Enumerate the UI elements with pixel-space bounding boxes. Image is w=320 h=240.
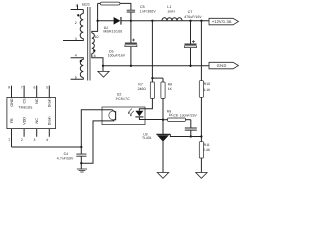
node C4 bottom / emitter bbox=[80, 162, 82, 164]
svg-text:U2: U2 bbox=[117, 92, 122, 96]
svg-text:MBR10100: MBR10100 bbox=[103, 29, 122, 33]
IC U1 box bbox=[7, 98, 56, 129]
capacitor C8 bbox=[190, 120, 192, 128]
capacitor C4 bbox=[80, 147, 82, 154]
wire opto emitter to ground bbox=[81, 121, 102, 163]
node R7R8 top bbox=[151, 77, 153, 79]
svg-text:5: 5 bbox=[46, 85, 48, 89]
node: D2 anode junction bbox=[96, 20, 98, 22]
primary polarity dot bbox=[77, 14, 79, 16]
opto LED bbox=[135, 111, 143, 117]
optocoupler U2 box bbox=[102, 107, 145, 125]
svg-text:VDD: VDD bbox=[23, 117, 27, 125]
svg-text:NC: NC bbox=[35, 118, 39, 124]
svg-text:4: 4 bbox=[75, 54, 77, 58]
wire C5 to output wire bbox=[130, 12, 132, 21]
svg-text:C8: C8 bbox=[173, 114, 177, 118]
svg-text:1: 1 bbox=[75, 4, 77, 8]
secondary polarity dot bbox=[93, 50, 95, 52]
capacitor C6 electrolytic bbox=[130, 21, 132, 43]
wire R8 to TL431 cathode node bbox=[162, 98, 164, 119]
transformer T1 aux winding lead bottom bbox=[71, 78, 84, 80]
transformer T1 secondary winding pins 10-8 top lead bbox=[92, 3, 98, 33]
wire snubber right bbox=[120, 3, 131, 10]
svg-text:C5: C5 bbox=[140, 5, 145, 9]
svg-text:4.7nF/50V: 4.7nF/50V bbox=[57, 157, 74, 161]
node: R7R8 feed junction bbox=[151, 20, 153, 22]
transformer T1 secondary winding coil bbox=[92, 33, 95, 54]
svg-text:100uF/16V: 100uF/16V bbox=[108, 53, 126, 57]
transformer T1 secondary bottom lead to ground rail bbox=[92, 54, 103, 66]
svg-text:Drain: Drain bbox=[48, 116, 52, 125]
svg-text:TL431: TL431 bbox=[142, 136, 152, 140]
wire R7R8 feed from output bbox=[151, 21, 153, 78]
output flag +12V/1.3A bbox=[209, 18, 238, 25]
resistor R10 bbox=[199, 81, 203, 98]
node R9/TL431/opto bbox=[162, 119, 164, 121]
wire R7 to opto LED anode bbox=[139, 98, 152, 110]
svg-text:GND: GND bbox=[10, 98, 14, 107]
svg-text:1mH: 1mH bbox=[167, 10, 175, 14]
IC top pin stubs 8,7,6,5 bbox=[12, 86, 50, 98]
transformer T1 aux winding coil bbox=[80, 60, 83, 78]
svg-text:4: 4 bbox=[46, 138, 48, 142]
IC bottom pin stubs 1,2,3,4 bbox=[12, 129, 50, 147]
node: C7 junction bbox=[189, 20, 191, 22]
svg-text:8: 8 bbox=[8, 85, 10, 89]
svg-text:L1: L1 bbox=[167, 5, 171, 9]
svg-text:C7: C7 bbox=[188, 10, 193, 14]
wire snubber left bbox=[98, 2, 101, 4]
ground symbol R11 (triangle) bbox=[196, 173, 207, 179]
svg-text:FB: FB bbox=[10, 118, 14, 123]
ground rail (secondary) bbox=[103, 65, 209, 67]
wire main output (secondary rectifier rail) bbox=[98, 20, 209, 22]
ground symbol TL431 (triangle) bbox=[157, 173, 168, 179]
resistor R11 bbox=[199, 142, 203, 158]
node: rail C7 bbox=[189, 65, 191, 67]
resistor R8 bbox=[162, 78, 164, 82]
node R10/R11/ref bbox=[200, 135, 202, 137]
svg-text:100nF/25V: 100nF/25V bbox=[180, 114, 198, 118]
transformer T1 primary winding pins 1-3 lead top bbox=[71, 5, 84, 14]
GND flag bbox=[209, 62, 238, 69]
svg-text:Drain: Drain bbox=[48, 98, 52, 107]
svg-text:GND: GND bbox=[217, 63, 227, 68]
wire R10 feed from output bbox=[200, 21, 202, 81]
svg-text:TM6105: TM6105 bbox=[18, 105, 32, 109]
svg-text:2: 2 bbox=[75, 21, 77, 25]
wire R7R8 top bar bbox=[152, 77, 163, 79]
snubber resistor (series with C5) bbox=[100, 2, 120, 5]
node: rail at pin8 bbox=[102, 65, 104, 67]
svg-text:3: 3 bbox=[34, 138, 36, 142]
svg-text:9.1K: 9.1K bbox=[203, 88, 211, 92]
svg-text:R11: R11 bbox=[204, 143, 210, 147]
svg-text:CS: CS bbox=[23, 98, 27, 104]
svg-text:3: 3 bbox=[75, 37, 77, 41]
svg-text:470uF/16V: 470uF/16V bbox=[184, 15, 202, 19]
svg-text:10: 10 bbox=[95, 35, 99, 39]
TL431 U3 bbox=[162, 120, 164, 134]
TL431 ref wire bbox=[170, 134, 201, 136]
transformer T1 core bbox=[88, 7, 90, 81]
opto phototransistor bbox=[115, 111, 117, 120]
svg-text:2: 2 bbox=[21, 138, 23, 142]
transformer T1 aux winding pins 4-5 lead top bbox=[71, 58, 84, 60]
ground symbol secondary (triangle) bbox=[102, 66, 104, 72]
wire FB pin1 to opto node bbox=[12, 146, 82, 148]
svg-text:NC: NC bbox=[35, 98, 39, 104]
wire opto collector to FB node bbox=[81, 110, 102, 147]
svg-text:+12V/1.3A: +12V/1.3A bbox=[212, 19, 232, 24]
transformer T1 primary winding lead bottom bbox=[63, 39, 83, 41]
svg-text:PC817C: PC817C bbox=[116, 97, 131, 101]
resistor R7 bbox=[151, 78, 153, 82]
capacitor C5 bbox=[127, 10, 135, 12]
capacitor C7 electrolytic bbox=[190, 21, 192, 44]
svg-text:1K: 1K bbox=[168, 87, 173, 91]
opto light arrows bbox=[128, 109, 134, 115]
svg-text:6: 6 bbox=[34, 85, 36, 89]
wire R10 to divider node bbox=[200, 97, 202, 141]
svg-text:EE20: EE20 bbox=[82, 2, 90, 6]
diode D2 bbox=[114, 17, 121, 25]
node: C5/C6 junction on output wire bbox=[130, 20, 132, 22]
svg-text:240Ω: 240Ω bbox=[138, 87, 147, 91]
aux polarity dot bbox=[80, 60, 82, 62]
svg-text:5: 5 bbox=[75, 75, 77, 79]
node: rail C6 bbox=[130, 65, 132, 67]
node: R10 feed junction bbox=[200, 20, 202, 22]
svg-text:1nF/300V: 1nF/300V bbox=[140, 10, 157, 14]
svg-text:7: 7 bbox=[21, 85, 23, 89]
node FB/C4 bbox=[80, 146, 82, 148]
svg-text:1: 1 bbox=[8, 138, 10, 142]
svg-text:R10: R10 bbox=[204, 82, 210, 86]
resistor R9 bbox=[163, 119, 168, 121]
transformer T1 primary winding coil bbox=[80, 14, 83, 39]
inductor L1 bbox=[162, 18, 182, 21]
svg-text:2.4K: 2.4K bbox=[203, 148, 211, 152]
ground symbol primary (earth bars) bbox=[80, 163, 82, 169]
